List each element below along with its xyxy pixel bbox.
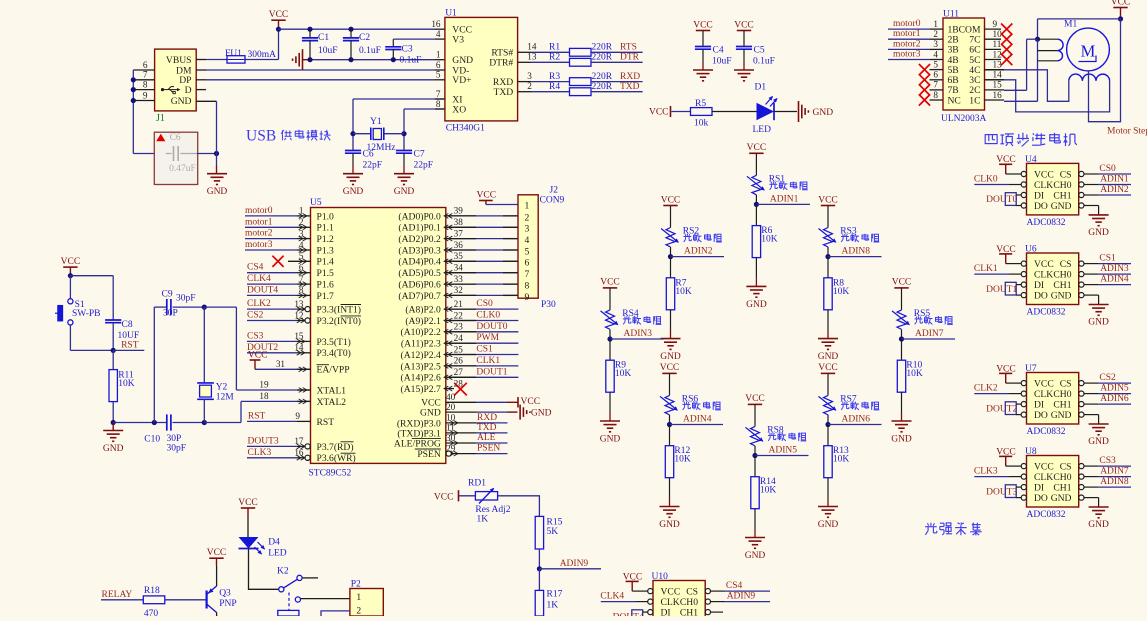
svg-text:CS4: CS4 [726,581,743,591]
svg-text:P3.3(INT1): P3.3(INT1) [317,305,362,316]
svg-text:GND: GND [1088,228,1109,238]
svg-text:VCC: VCC [238,498,258,508]
svg-text:GND: GND [394,187,415,197]
svg-text:NC: NC [948,95,961,106]
svg-text:GND: GND [745,551,766,561]
svg-text:1: 1 [525,200,530,211]
svg-text:motor2: motor2 [893,39,921,49]
svg-text:7: 7 [525,269,530,280]
svg-text:10K: 10K [674,455,691,465]
svg-text:13: 13 [527,52,537,62]
svg-text:ADC0832: ADC0832 [1027,308,1066,318]
svg-text:CS: CS [1060,379,1072,390]
svg-text:8: 8 [525,281,530,292]
svg-text:VCC: VCC [434,493,454,503]
svg-text:5: 5 [933,59,938,69]
svg-text:10K: 10K [615,369,632,379]
svg-text:FU1: FU1 [225,49,242,59]
svg-text:7: 7 [436,89,441,99]
svg-text:P3.5(T1): P3.5(T1) [317,337,351,348]
svg-text:VCC: VCC [734,20,754,30]
svg-text:VCC: VCC [1034,259,1054,270]
svg-text:ADIN1: ADIN1 [1100,175,1129,185]
svg-text:VCC: VCC [818,363,838,373]
svg-text:C2: C2 [359,33,370,43]
svg-text:ADIN7: ADIN7 [915,329,944,339]
svg-text:6: 6 [525,258,530,269]
svg-text:GND: GND [171,96,192,107]
svg-text:1: 1 [356,592,361,603]
svg-text:GND: GND [1051,493,1072,504]
svg-text:12: 12 [294,310,304,320]
svg-text:CS2: CS2 [1099,373,1116,383]
svg-text:VCC: VCC [693,20,713,30]
svg-text:ADIN3: ADIN3 [1100,264,1129,274]
svg-text:0.1uF: 0.1uF [753,57,775,67]
svg-text:CH1: CH1 [1053,280,1071,291]
svg-text:C1: C1 [318,33,329,43]
svg-text:6: 6 [436,60,441,70]
svg-text:8: 8 [436,99,441,109]
svg-text:1: 1 [933,19,938,29]
svg-text:VCC: VCC [660,363,680,373]
svg-text:0.1uF: 0.1uF [359,46,381,56]
svg-text:VCC: VCC [1034,462,1054,473]
svg-text:ADIN6: ADIN6 [842,415,871,425]
svg-text:9: 9 [295,411,300,421]
svg-text:M: M [1081,42,1096,61]
svg-text:10uF: 10uF [318,46,338,56]
svg-text:32: 32 [454,285,464,295]
svg-text:D: D [185,85,192,96]
svg-text:DO: DO [1034,410,1048,421]
svg-text:CS: CS [1060,169,1072,180]
svg-text:VCC: VCC [1034,169,1054,180]
svg-text:D1: D1 [755,83,767,93]
svg-text:30: 30 [446,433,456,443]
svg-text:ADIN6: ADIN6 [1100,394,1129,404]
svg-text:M1: M1 [1064,20,1077,30]
svg-text:GND: GND [1051,410,1072,421]
svg-text:23: 23 [454,322,464,332]
svg-text:3: 3 [299,228,304,238]
svg-text:33: 33 [454,274,464,284]
svg-text:220R: 220R [592,43,613,53]
svg-text:P1.1: P1.1 [317,223,335,234]
svg-text:TXD: TXD [493,87,513,98]
svg-text:1K: 1K [477,515,489,525]
svg-text:ADIN1: ADIN1 [770,194,799,204]
svg-text:39: 39 [454,206,464,216]
svg-text:VCC: VCC [521,397,541,407]
svg-text:VCC: VCC [747,143,767,153]
svg-text:U10: U10 [652,572,669,582]
svg-text:CS2: CS2 [247,311,264,321]
svg-text:13: 13 [993,59,1003,69]
svg-text:10K: 10K [833,455,850,465]
svg-text:GND: GND [660,352,681,362]
svg-text:ADIN2: ADIN2 [1100,185,1129,195]
svg-text:motor1: motor1 [245,217,273,227]
svg-text:34: 34 [454,263,464,273]
svg-text:P1.3: P1.3 [317,245,335,256]
svg-text:5: 5 [299,251,304,261]
svg-text:22pF: 22pF [363,161,383,171]
svg-text:(AD0)P0.0: (AD0)P0.0 [398,211,441,222]
svg-text:U5: U5 [310,198,322,208]
svg-text:9: 9 [525,292,530,303]
svg-text:6: 6 [299,263,304,273]
svg-text:10K: 10K [833,287,850,297]
svg-text:CH0: CH0 [1053,472,1071,483]
svg-text:ADC0832: ADC0832 [1027,218,1066,228]
svg-text:6: 6 [933,70,938,80]
svg-text:CLK: CLK [661,597,680,608]
svg-text:ADIN7: ADIN7 [1100,467,1129,477]
svg-text:P2: P2 [351,580,361,590]
svg-text:(AD7)P0.7: (AD7)P0.7 [398,291,441,302]
svg-text:GND: GND [1088,437,1109,447]
svg-text:CLK: CLK [1034,180,1053,191]
svg-text:CH0: CH0 [1053,270,1071,281]
svg-text:5K: 5K [547,527,559,537]
svg-text:21: 21 [454,299,464,309]
svg-text:C3: C3 [402,44,413,54]
svg-text:motor0: motor0 [893,19,921,29]
svg-text:C6: C6 [363,150,374,160]
svg-text:J2: J2 [550,186,559,196]
svg-text:CLK3: CLK3 [248,448,272,458]
svg-text:XTAL1: XTAL1 [317,385,347,396]
svg-text:(A15)P2.7: (A15)P2.7 [401,384,441,395]
svg-text:15: 15 [993,80,1003,90]
svg-text:VCC: VCC [1034,379,1054,390]
svg-text:0.1uF: 0.1uF [400,55,422,65]
svg-text:16: 16 [294,448,304,458]
svg-text:CS3: CS3 [1099,456,1116,466]
svg-text:C9: C9 [162,290,173,300]
svg-text:19: 19 [259,380,269,390]
svg-text:220R: 220R [592,72,613,82]
svg-text:CS0: CS0 [1099,164,1116,174]
svg-text:26: 26 [454,356,464,366]
svg-text:CH1: CH1 [1053,483,1071,494]
svg-text:Motor Step: Motor Step [1107,127,1147,137]
svg-text:J1: J1 [156,113,165,124]
svg-text:3: 3 [525,224,530,235]
svg-text:V3: V3 [452,34,464,45]
svg-text:36: 36 [454,240,464,250]
svg-text:GND: GND [1051,291,1072,302]
svg-text:GND: GND [891,435,912,445]
svg-text:2: 2 [356,606,361,617]
svg-text:CLK3: CLK3 [974,467,998,477]
svg-text:R1: R1 [549,43,560,53]
svg-text:10K: 10K [906,369,923,379]
svg-text:VBUS: VBUS [166,55,192,66]
svg-text:ADIN4: ADIN4 [683,415,712,425]
svg-text:10K: 10K [761,235,778,245]
svg-text:8: 8 [933,90,938,100]
svg-text:STC89C52: STC89C52 [309,469,352,479]
svg-text:7: 7 [143,70,148,80]
svg-text:DOUT4: DOUT4 [247,285,278,295]
svg-text:(A12)P2.4: (A12)P2.4 [401,350,441,361]
svg-text:20: 20 [446,402,456,412]
svg-text:R3: R3 [549,72,560,82]
svg-text:2: 2 [299,217,304,227]
svg-text:DOUT0: DOUT0 [476,322,507,332]
svg-text:C10: C10 [144,435,160,445]
svg-text:CLK: CLK [1034,270,1053,281]
svg-text:(A9)P2.1: (A9)P2.1 [405,316,441,327]
svg-text:CS: CS [1060,259,1072,270]
svg-text:ADIN5: ADIN5 [769,446,798,456]
svg-text:(AD1)P0.1: (AD1)P0.1 [398,223,441,234]
svg-text:24: 24 [454,333,464,343]
svg-text:CH340G1: CH340G1 [446,124,485,134]
svg-text:U11: U11 [943,10,959,20]
svg-text:U7: U7 [1025,364,1037,374]
svg-text:3: 3 [527,71,532,81]
svg-text:30pF: 30pF [167,444,187,454]
svg-text:38: 38 [454,217,464,227]
svg-text:U4: U4 [1025,155,1037,165]
svg-text:RELAY: RELAY [102,590,133,600]
svg-text:5: 5 [525,246,530,257]
svg-text:CLK0: CLK0 [476,311,500,321]
svg-text:CS1: CS1 [1099,254,1116,264]
svg-text:22pF: 22pF [414,161,434,171]
svg-text:2: 2 [527,81,532,91]
svg-text:CLK2: CLK2 [247,299,271,309]
svg-text:P1.7: P1.7 [317,291,335,302]
svg-text:RST: RST [121,340,139,350]
svg-text:ADIN4: ADIN4 [1100,275,1129,285]
svg-text:R15: R15 [547,518,563,528]
svg-text:16: 16 [431,19,441,29]
svg-text:USB: USB [246,128,276,145]
svg-text:GND: GND [600,435,621,445]
svg-text:(A11)P2.3: (A11)P2.3 [401,339,441,350]
svg-text:40: 40 [446,392,456,402]
svg-text:D4: D4 [268,538,280,548]
svg-text:XO: XO [452,104,466,115]
svg-text:CLK1: CLK1 [974,264,998,274]
svg-text:10uF: 10uF [712,57,732,67]
svg-text:ALE/PROG: ALE/PROG [394,438,441,449]
svg-text:RTS: RTS [620,43,637,53]
svg-text:VCC: VCC [61,257,81,267]
svg-text:ADC0832: ADC0832 [1027,427,1066,437]
svg-text:CS0: CS0 [476,299,493,309]
svg-text:25: 25 [454,344,464,354]
svg-text:1C: 1C [969,95,980,106]
svg-text:VCC: VCC [477,191,497,201]
svg-text:10: 10 [446,413,456,423]
svg-text:VCC: VCC [248,351,268,361]
svg-text:CLK2: CLK2 [974,384,998,394]
svg-text:R17: R17 [547,590,563,600]
svg-text:30P: 30P [167,434,182,444]
svg-text:DO: DO [1034,291,1048,302]
svg-text:DOUT1: DOUT1 [476,367,507,377]
svg-text:GND: GND [207,187,228,197]
svg-text:VCC: VCC [269,10,289,20]
svg-text:(AD5)P0.5: (AD5)P0.5 [398,268,441,279]
svg-text:Y1: Y1 [370,117,382,127]
svg-text:P1.4: P1.4 [317,257,335,268]
svg-text:Q3: Q3 [219,589,231,599]
svg-text:GND: GND [1051,201,1072,212]
svg-text:PSEN: PSEN [477,444,500,454]
svg-text:U6: U6 [1025,245,1037,255]
svg-text:VCC: VCC [745,394,765,404]
svg-text:DOUT4: DOUT4 [613,612,644,616]
svg-text:CH0: CH0 [1053,389,1071,400]
svg-text:motor0: motor0 [245,206,273,216]
svg-text:30P: 30P [163,309,178,319]
svg-text:SW-PB: SW-PB [72,309,101,319]
svg-text:motor2: motor2 [245,229,273,239]
svg-text:PWM: PWM [476,333,499,343]
svg-text:GND: GND [818,520,839,530]
svg-text:P30: P30 [541,300,556,310]
svg-text:CLK: CLK [1034,472,1053,483]
svg-text:ADIN9: ADIN9 [727,592,756,602]
svg-text:PSEN: PSEN [417,449,441,460]
svg-text:GND: GND [1088,520,1109,530]
svg-text:DI: DI [1034,483,1044,494]
svg-text:C6: C6 [170,133,181,143]
svg-text:PNP: PNP [219,599,236,609]
svg-text:GND: GND [813,108,834,118]
svg-text:CS3: CS3 [247,331,264,341]
svg-text:P1.5: P1.5 [317,268,335,279]
svg-text:10K: 10K [675,287,692,297]
svg-text:Y2: Y2 [216,382,228,392]
svg-text:GND: GND [343,187,364,197]
svg-text:11: 11 [993,39,1002,49]
svg-text:GND: GND [103,444,124,454]
svg-text:P1.6: P1.6 [317,280,335,291]
svg-text:DTR: DTR [620,53,640,63]
svg-text:10K: 10K [760,486,777,496]
svg-text:ADIN8: ADIN8 [842,247,871,257]
svg-text:10: 10 [993,29,1003,39]
svg-text:CLK: CLK [1034,389,1053,400]
svg-text:27: 27 [454,367,464,377]
svg-text:ADIN9: ADIN9 [560,559,589,569]
svg-text:4: 4 [436,29,441,39]
svg-text:VCC: VCC [649,108,669,118]
svg-text:9: 9 [993,19,998,29]
svg-text:motor3: motor3 [893,50,921,60]
svg-text:K2: K2 [277,567,289,577]
svg-text:4: 4 [525,235,530,246]
svg-text:RXD: RXD [477,413,497,423]
svg-text:14: 14 [993,70,1003,80]
svg-text:DOUT3: DOUT3 [986,487,1017,497]
svg-text:motor3: motor3 [245,240,273,250]
svg-text:CS4: CS4 [247,263,264,273]
svg-text:DI: DI [1034,400,1044,411]
svg-text:U1: U1 [445,9,457,19]
svg-text:C4: C4 [713,46,724,56]
svg-text:CS1: CS1 [476,345,493,355]
svg-text:11: 11 [446,423,455,433]
svg-text:DI: DI [661,608,671,617]
svg-text:LED: LED [268,549,287,559]
svg-text:EA/VPP: EA/VPP [317,365,350,376]
svg-text:14: 14 [527,42,537,52]
svg-text:8: 8 [299,285,304,295]
svg-text:9: 9 [143,90,148,100]
svg-text:29: 29 [446,443,456,453]
svg-text:300mA: 300mA [248,50,277,60]
svg-text:DOUT2: DOUT2 [986,404,1017,414]
svg-text:P3.6(WR): P3.6(WR) [317,453,356,464]
svg-text:10k: 10k [694,119,709,129]
svg-text:R2: R2 [549,53,560,63]
svg-text:0.47uF: 0.47uF [169,164,196,174]
svg-text:C5: C5 [754,46,765,56]
svg-text:ADIN5: ADIN5 [1100,384,1129,394]
svg-text:4: 4 [933,49,938,59]
svg-text:12M: 12M [216,393,235,403]
svg-text:7: 7 [299,274,304,284]
svg-text:TXD: TXD [477,423,497,433]
svg-text:R5: R5 [695,99,706,109]
svg-text:CH0: CH0 [1053,180,1071,191]
svg-text:motor1: motor1 [893,29,921,39]
svg-text:13: 13 [294,299,304,309]
svg-text:TXD: TXD [620,82,640,92]
svg-text:GND: GND [818,352,839,362]
svg-text:CON9: CON9 [540,195,565,205]
svg-text:(A13)P2.5: (A13)P2.5 [401,361,441,372]
svg-text:CH1: CH1 [1053,190,1071,201]
svg-text:C7: C7 [414,150,425,160]
svg-text:CH1: CH1 [680,608,698,617]
svg-text:LED: LED [753,125,772,135]
svg-text:DO: DO [1034,201,1048,212]
svg-text:(AD6)P0.6: (AD6)P0.6 [398,280,441,291]
svg-text:DI: DI [1034,190,1044,201]
svg-text:RST: RST [317,417,335,428]
svg-text:(AD3)P0.3: (AD3)P0.3 [398,245,441,256]
svg-text:1K: 1K [547,601,559,611]
svg-text:VCC: VCC [1111,0,1131,7]
svg-text:(A10)P2.2: (A10)P2.2 [401,327,441,338]
svg-text:DO: DO [1034,493,1048,504]
svg-text:12: 12 [993,49,1003,59]
svg-text:220R: 220R [592,53,613,63]
svg-text:R18: R18 [144,586,160,596]
svg-text:(AD2)P0.2: (AD2)P0.2 [398,234,441,245]
svg-text:1: 1 [436,50,441,60]
svg-text:P3.7(RD): P3.7(RD) [317,442,354,453]
svg-text:8: 8 [143,79,148,89]
svg-text:GND: GND [531,409,552,419]
svg-text:(AD4)P0.4: (AD4)P0.4 [398,257,441,268]
svg-text:31: 31 [276,359,286,369]
svg-text:DOUT1: DOUT1 [986,285,1017,295]
svg-text:ADIN8: ADIN8 [1100,477,1129,487]
svg-text:5: 5 [436,70,441,80]
svg-text:GND: GND [659,520,680,530]
svg-text:30pF: 30pF [176,294,196,304]
